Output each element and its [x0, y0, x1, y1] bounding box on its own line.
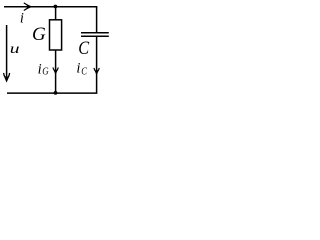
svg-text:i: i: [76, 61, 80, 77]
resistor (conductance) G box: [50, 20, 62, 50]
svg-text:i: i: [38, 61, 42, 77]
label C: [78, 37, 89, 58]
wire lead below G box: [55, 50, 57, 93]
wire lead to G box: [55, 7, 57, 20]
wire bottom: [7, 92, 97, 94]
svg-text:C: C: [81, 67, 87, 78]
svg-text:G: G: [42, 67, 49, 78]
arrow current i on top wire: [24, 3, 32, 11]
svg-text:G: G: [32, 24, 46, 45]
label u: [10, 41, 20, 56]
arrow current iG on lead: [53, 67, 58, 74]
capacitor C plates: [81, 32, 109, 34]
wire right lower: [96, 36, 98, 93]
arrow voltage u on left: [6, 25, 8, 79]
wire right upper: [96, 7, 98, 33]
svg-text:i: i: [20, 11, 24, 27]
wire top: [4, 6, 97, 8]
node junction dot bottom: [54, 91, 58, 95]
svg-text:u: u: [10, 41, 20, 56]
svg-text:C: C: [78, 37, 89, 58]
arrow current iC on right wire: [94, 68, 99, 75]
node junction dot top: [54, 5, 58, 9]
